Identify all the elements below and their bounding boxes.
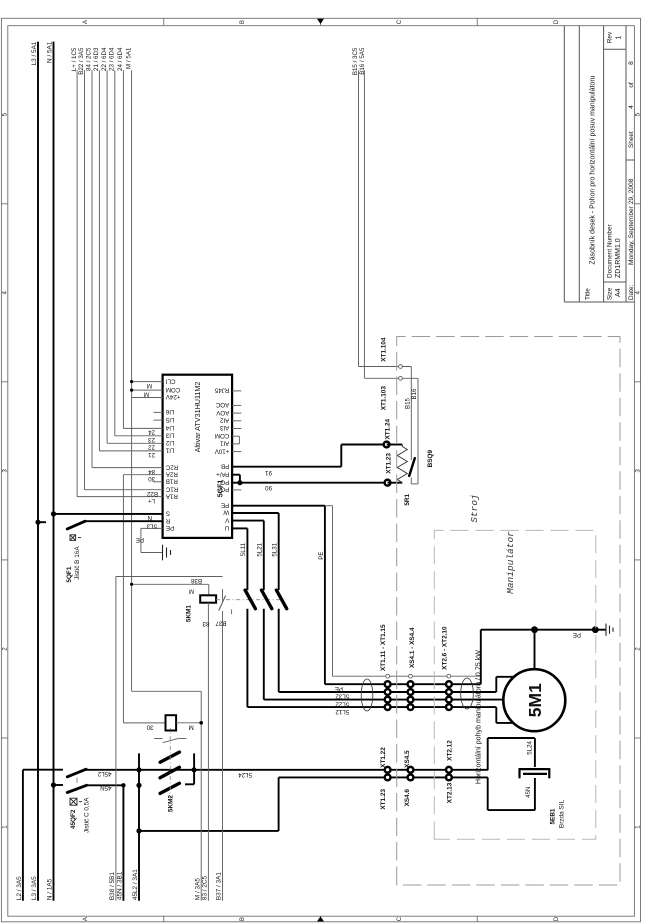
svg-text:A4: A4: [615, 288, 622, 297]
svg-text:PE: PE: [136, 536, 144, 543]
svg-text:30: 30: [146, 723, 153, 730]
svg-text:PE: PE: [166, 524, 174, 531]
svg-text:Altivar ATV31HU11M2: Altivar ATV31HU11M2: [193, 382, 202, 453]
svg-text:45QF2: 45QF2: [70, 809, 77, 829]
svg-text:R1C: R1C: [165, 485, 178, 492]
svg-text:45N: 45N: [525, 787, 532, 798]
svg-text:24 / 6D4: 24 / 6D4: [117, 47, 124, 71]
svg-text:RJ45: RJ45: [214, 387, 229, 394]
svg-text:XT1.22: XT1.22: [380, 747, 387, 768]
svg-text:5EB1: 5EB1: [550, 808, 557, 824]
svg-text:M / 5A1: M / 5A1: [125, 47, 132, 69]
svg-text:A: A: [83, 917, 89, 921]
svg-text:R1A: R1A: [165, 492, 178, 499]
svg-text:5L31: 5L31: [272, 542, 279, 556]
svg-text:LI4: LI4: [165, 424, 174, 431]
svg-text:XT1.23: XT1.23: [386, 453, 393, 474]
svg-text:R2C: R2C: [165, 463, 178, 470]
svg-text:B16: B16: [411, 388, 418, 400]
svg-text:XT1.103: XT1.103: [381, 386, 388, 411]
svg-text:PB: PB: [221, 462, 229, 469]
svg-text:23 / 6D4: 23 / 6D4: [109, 47, 116, 71]
svg-text:5L11: 5L11: [240, 542, 247, 556]
svg-text:+24V: +24V: [165, 393, 180, 400]
svg-text:PE: PE: [573, 631, 581, 638]
svg-text:Size: Size: [607, 287, 614, 300]
svg-text:1: 1: [616, 35, 623, 39]
svg-text:5L24: 5L24: [527, 740, 534, 754]
svg-text:Horizontální pohyb manipulátor: Horizontální pohyb manipulátoru / 0.75 k…: [475, 650, 483, 784]
svg-text:B38: B38: [190, 577, 202, 584]
svg-text:ZD1RMM1.0: ZD1RMM1.0: [615, 238, 622, 278]
svg-text:W: W: [223, 509, 229, 516]
svg-text:30: 30: [148, 475, 155, 482]
svg-text:AI3: AI3: [219, 424, 229, 431]
svg-text:PE: PE: [335, 685, 343, 692]
svg-text:5M1: 5M1: [525, 683, 545, 717]
svg-text:XT2.6 - XT2.10: XT2.6 - XT2.10: [442, 626, 449, 670]
svg-text:XT1.11 - XT1.15: XT1.11 - XT1.15: [380, 624, 387, 671]
svg-text:PE: PE: [221, 501, 229, 508]
svg-text:LI3: LI3: [165, 432, 174, 439]
svg-text:84 / 2C5: 84 / 2C5: [86, 47, 93, 71]
svg-text:XT2.13: XT2.13: [446, 782, 453, 803]
svg-text:AI2: AI2: [219, 417, 229, 424]
svg-text:N: N: [148, 514, 152, 521]
svg-text:B: B: [240, 20, 246, 24]
svg-text:PE: PE: [318, 552, 325, 560]
svg-text:L3 / 5A1: L3 / 5A1: [31, 41, 38, 65]
svg-text:XT1.104: XT1.104: [381, 337, 388, 362]
svg-text:XT1.23: XT1.23: [380, 789, 387, 810]
svg-text:M / 3A5: M / 3A5: [195, 878, 202, 900]
svg-text:24: 24: [148, 429, 155, 436]
svg-text:BSQ9: BSQ9: [427, 450, 434, 468]
svg-text:B22: B22: [146, 490, 158, 497]
svg-text:B38 / 5B1: B38 / 5B1: [109, 872, 116, 901]
svg-text:M: M: [189, 723, 194, 730]
svg-text:Sheet: Sheet: [628, 131, 635, 148]
svg-text:COM: COM: [215, 432, 229, 439]
svg-text:83 / 2C5: 83 / 2C5: [202, 875, 209, 900]
svg-text:Date:: Date:: [628, 285, 635, 300]
svg-text:45N / 3B1: 45N / 3B1: [117, 871, 124, 900]
svg-text:21: 21: [148, 451, 155, 458]
svg-text:B15 / 3C5: B15 / 3C5: [352, 47, 359, 75]
svg-text:84: 84: [148, 468, 155, 475]
svg-text:M: M: [189, 588, 194, 595]
svg-text:XT2.12: XT2.12: [446, 740, 453, 761]
svg-text:8: 8: [628, 61, 635, 65]
svg-text:B22 / 3A5: B22 / 3A5: [78, 47, 85, 75]
svg-text:CLI: CLI: [166, 377, 176, 384]
svg-text:Monday, September 29, 2008: Monday, September 29, 2008: [628, 178, 635, 265]
svg-text:Jistič B 16A: Jistič B 16A: [74, 546, 81, 580]
svg-text:5L24: 5L24: [238, 771, 252, 778]
svg-text:83: 83: [202, 620, 209, 627]
svg-text:22 / 6D4: 22 / 6D4: [101, 47, 108, 71]
svg-text:XT1.24: XT1.24: [385, 418, 392, 439]
svg-text:M: M: [144, 390, 149, 397]
svg-text:Zásobník desek - Pohon pro hor: Zásobník desek - Pohon pro horizontální …: [590, 75, 597, 264]
svg-text:5QF1: 5QF1: [66, 566, 73, 582]
svg-text:B: B: [240, 917, 246, 921]
svg-text:Brzda SIL: Brzda SIL: [559, 800, 566, 829]
svg-text:PO: PO: [220, 478, 229, 485]
svg-text:C: C: [397, 19, 403, 24]
svg-text:5L22: 5L22: [335, 700, 349, 707]
svg-text:XS4.5: XS4.5: [404, 750, 411, 768]
svg-text:23: 23: [148, 436, 155, 443]
svg-text:LI6: LI6: [165, 408, 174, 415]
svg-text:A: A: [83, 20, 89, 24]
svg-text:5KM1: 5KM1: [186, 605, 193, 622]
svg-text:45N: 45N: [100, 784, 111, 791]
svg-text:XS4.6: XS4.6: [404, 789, 411, 807]
svg-text:Jistič C 0,5A: Jistič C 0,5A: [84, 797, 91, 833]
svg-text:S: S: [166, 510, 170, 517]
svg-text:D: D: [554, 19, 560, 24]
svg-text:AI1: AI1: [219, 440, 229, 447]
svg-text:4: 4: [628, 105, 635, 109]
svg-text:Stroj: Stroj: [469, 494, 480, 523]
svg-text:L3 / 3A5: L3 / 3A5: [31, 876, 38, 900]
svg-text:90: 90: [265, 484, 272, 491]
svg-text:Title: Title: [585, 288, 592, 300]
svg-text:N / 5A1: N / 5A1: [47, 41, 54, 63]
svg-text:N / 1A5: N / 1A5: [47, 878, 54, 900]
svg-text:5L12: 5L12: [335, 708, 349, 715]
svg-text:Document Number: Document Number: [607, 223, 614, 278]
svg-text:45L2 / 3A1: 45L2 / 3A1: [132, 869, 139, 900]
svg-text:D: D: [554, 916, 560, 921]
svg-text:B16 / 5A5: B16 / 5A5: [359, 47, 366, 75]
svg-text:L+: L+: [148, 497, 155, 504]
svg-text:Rev: Rev: [607, 31, 614, 43]
svg-text:5L32: 5L32: [335, 693, 349, 700]
svg-text:R2A: R2A: [165, 470, 178, 477]
svg-text:M: M: [147, 382, 152, 389]
svg-text:C: C: [397, 916, 403, 921]
svg-text:Manipulátor: Manipulátor: [505, 531, 516, 594]
svg-text:PC/-: PC/-: [217, 486, 229, 493]
svg-text:+10V: +10V: [214, 447, 229, 454]
svg-text:XS4.1 - XS4.4: XS4.1 - XS4.4: [409, 627, 416, 668]
svg-text:LI5: LI5: [165, 416, 174, 423]
svg-text:91: 91: [265, 469, 272, 476]
svg-text:5L21: 5L21: [257, 542, 264, 556]
svg-text:of: of: [628, 82, 635, 88]
svg-text:AOV: AOV: [215, 409, 229, 416]
svg-text:R1B: R1B: [166, 478, 178, 485]
svg-text:45L2: 45L2: [97, 770, 111, 777]
svg-text:LI2: LI2: [165, 439, 174, 446]
svg-text:5R1: 5R1: [404, 493, 411, 505]
svg-text:5KM2: 5KM2: [168, 795, 175, 812]
svg-text:LI1: LI1: [165, 447, 174, 454]
svg-text:U: U: [225, 524, 229, 531]
svg-text:22: 22: [148, 444, 155, 451]
svg-text:COM: COM: [166, 386, 180, 393]
svg-text:B37 / 3A1: B37 / 3A1: [216, 872, 223, 901]
svg-text:R: R: [165, 517, 170, 524]
svg-text:21 / 6D3: 21 / 6D3: [93, 47, 100, 71]
svg-text:AOC: AOC: [215, 401, 229, 408]
svg-text:B37: B37: [215, 620, 227, 627]
svg-text:L+ / 1C5: L+ / 1C5: [71, 47, 78, 71]
svg-text:PA/+: PA/+: [216, 470, 230, 477]
